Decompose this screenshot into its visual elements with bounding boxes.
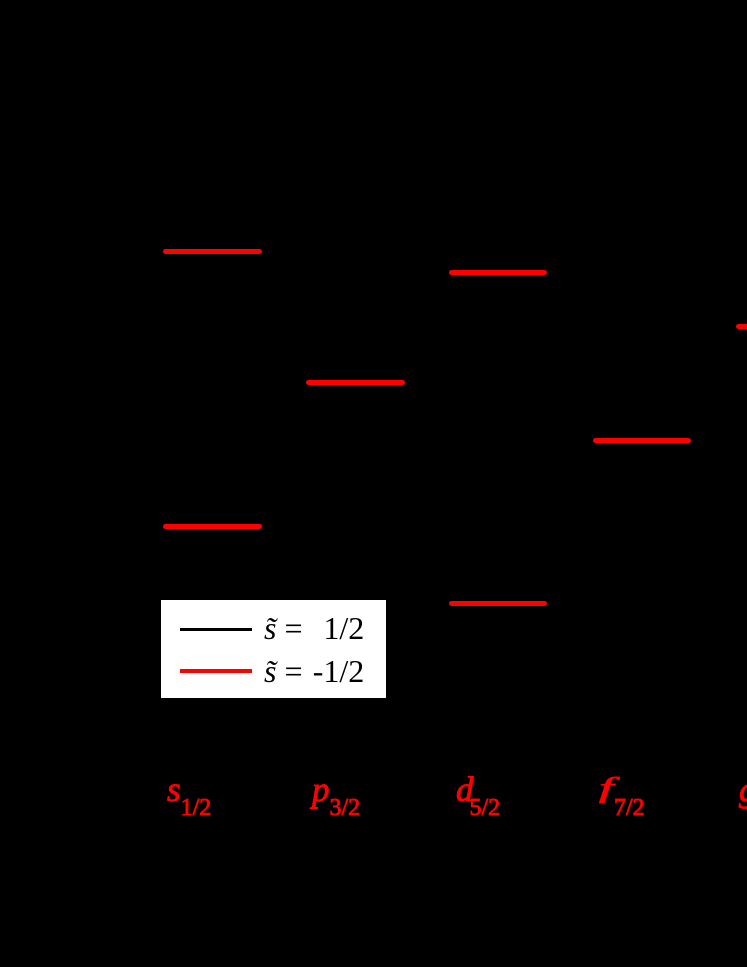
level line s1/2 upper (red) (163, 249, 262, 254)
level line d5/2 upper (red) (449, 270, 547, 275)
legend text s=-1/2 (264, 670, 303, 672)
label p_3/2 (312, 790, 360, 794)
legend text s=1/2 (264, 627, 303, 629)
label f_7/2 (599, 787, 614, 789)
legend sample line s=-1/2 (red) (180, 669, 253, 673)
label s_1/2 (167, 790, 211, 794)
level line d5/2 lower (red) (449, 601, 547, 606)
level line f7/2 (red) (593, 438, 691, 443)
legend sample line s=1/2 (black) (180, 628, 253, 632)
legend box (161, 600, 386, 698)
level line g9/2 (red, clipped at right edge) (736, 324, 747, 329)
label d_5/2 (456, 790, 500, 794)
level line s1/2 lower (red) (163, 524, 262, 529)
level line p3/2 (red) (306, 380, 405, 385)
label g_9/2 (clipped) (739, 790, 747, 794)
